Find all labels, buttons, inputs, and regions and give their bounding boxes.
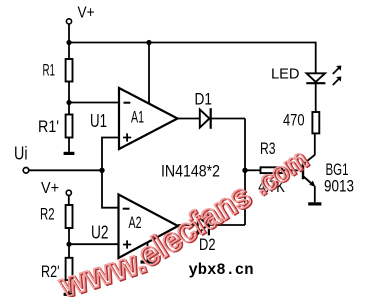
svg-text:R1': R1'	[38, 117, 59, 136]
svg-text:V+: V+	[41, 180, 59, 197]
junction dot R2/R2'	[66, 242, 71, 247]
svg-text:LED: LED	[271, 66, 300, 83]
resistor R1'	[66, 115, 73, 138]
svg-text:IN4148*2: IN4148*2	[161, 161, 220, 180]
wire R1 to junction	[68, 82, 70, 115]
diode D2	[198, 215, 209, 236]
svg-text:ybx8.cn: ybx8.cn	[189, 261, 254, 279]
terminal V+ top	[66, 19, 71, 24]
watermark www.elecfans.com	[54, 142, 315, 297]
wire D1 to node	[211, 118, 245, 120]
wire node to R3	[245, 169, 261, 171]
wire R1' to ground	[68, 138, 70, 152]
transistor BG1	[302, 155, 316, 187]
ground emitter	[308, 202, 321, 205]
svg-text:R2: R2	[40, 204, 55, 223]
wire A1 output to D1	[178, 118, 200, 120]
svg-text:V+: V+	[78, 5, 95, 22]
junction dot R1/R1'	[66, 100, 71, 105]
junction dot top rail	[66, 40, 71, 45]
ground A2	[147, 242, 149, 261]
wire collector up	[314, 133, 316, 155]
resistor R2	[66, 205, 73, 228]
LED arrow 2	[333, 77, 342, 86]
wire to A2 inverting input	[102, 170, 119, 207]
diode D1	[200, 108, 211, 129]
resistor R3	[261, 167, 283, 173]
wire emitter down	[314, 186, 316, 202]
svg-text:Ui: Ui	[14, 143, 28, 163]
LED arrow 1	[333, 66, 342, 75]
wire top rail	[69, 42, 316, 44]
wire A2 output to D2	[178, 224, 198, 226]
resistor R1	[66, 59, 73, 82]
svg-text:470: 470	[283, 111, 305, 130]
wire D2 to node column	[209, 224, 245, 226]
wire A1 non-inverting input	[102, 138, 119, 171]
ground under R1'	[64, 152, 75, 155]
terminal Ui	[23, 168, 29, 174]
wire R2 to R2'	[68, 228, 70, 258]
wire V+ to R2	[68, 196, 70, 206]
ground under R2'	[64, 293, 75, 296]
svg-text:A1: A1	[131, 107, 144, 126]
wire LED up	[315, 42, 317, 74]
terminal V+ lower	[66, 190, 71, 195]
wire A1 supply	[148, 43, 150, 104]
wire Ui to node	[29, 169, 102, 171]
wire to A1 inverting input	[69, 102, 119, 104]
wire R2' to ground	[68, 280, 70, 293]
junction dot node input	[99, 168, 104, 173]
op-amp U1 A1	[119, 88, 178, 149]
op-amp U2 A2	[119, 195, 179, 259]
junction dot A1 supply	[146, 40, 151, 45]
wire 470 to LED	[315, 84, 317, 113]
wire V+ down	[68, 24, 70, 59]
svg-text:A2: A2	[129, 213, 142, 232]
LED	[306, 73, 325, 83]
svg-text:U1: U1	[90, 111, 107, 131]
svg-text:9013: 9013	[324, 177, 354, 196]
resistor 470	[312, 112, 319, 133]
svg-text:R1: R1	[43, 60, 56, 79]
wire to A2 non-inverting input	[69, 243, 119, 245]
svg-text:U2: U2	[91, 222, 109, 242]
wire vertical node column	[244, 119, 246, 226]
svg-text:D1: D1	[195, 90, 213, 109]
svg-text:R3: R3	[260, 139, 276, 158]
junction dot node D	[242, 168, 247, 173]
wire R3 to base	[282, 169, 302, 171]
resistor R2'	[66, 258, 73, 280]
